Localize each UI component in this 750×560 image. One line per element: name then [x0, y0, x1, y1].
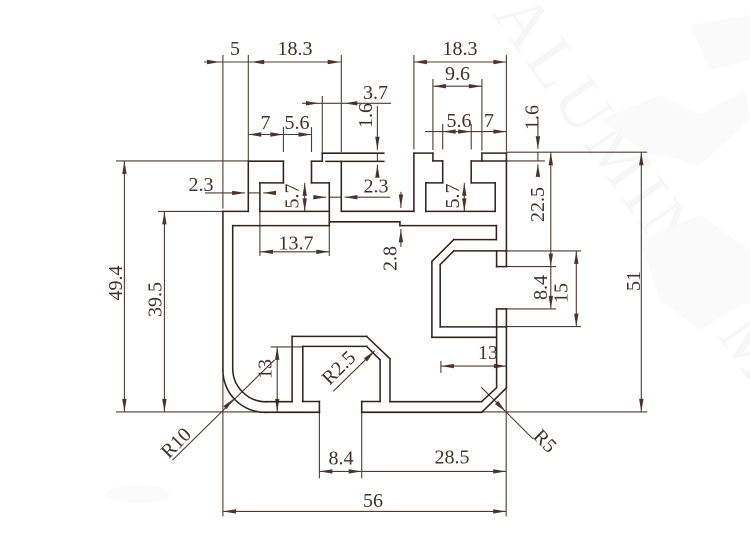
svg-text:28.5: 28.5: [435, 446, 470, 468]
bottom face: [265, 411, 319, 413]
bottom slot cavity chamfer R2.5: [367, 346, 381, 360]
surface left of right neck: [433, 160, 443, 162]
svg-text:5: 5: [230, 38, 240, 60]
leader R10: [173, 360, 275, 460]
left T-slot neck left wall: [282, 161, 284, 183]
left T-slot cavity floor: [260, 210, 329, 212]
dimension line 13.7 y=251.8: [260, 251, 329, 253]
channel mouth top inner: [454, 250, 507, 252]
interior right wall: [496, 327, 498, 388]
interior ceiling step: [399, 222, 401, 226]
ext line x=413.9 top: [413, 55, 415, 150]
dimension line 39.5 x=164.4: [163, 211, 165, 412]
ext line ledge left (y=211.4 to the left): [158, 210, 223, 212]
svg-text:2.8: 2.8: [379, 246, 401, 271]
arrows dim 13.7 (inside): [260, 250, 273, 254]
ext line top surface left (y=160.9 to the left): [116, 160, 248, 162]
dimension line 7 / 5.6 left y=134.5: [248, 134, 311, 136]
right T-slot cavity left wall: [425, 183, 427, 212]
interior floor left segment: [266, 401, 292, 403]
corner radius R10 outer arc: [223, 370, 265, 412]
svg-text:5.7: 5.7: [442, 184, 464, 209]
right flange top: [482, 152, 507, 154]
right flange step: [481, 153, 483, 161]
dimension line 22.5 x=550.8: [550, 152, 552, 266]
arrows dim 5.7 left (inside, vertical): [303, 183, 307, 196]
arrows dim 2.8 (outside, vertical): [399, 195, 403, 208]
svg-text:18.3: 18.3: [278, 38, 313, 60]
dimension line 15 right x=576.3: [575, 251, 577, 327]
flange top: [322, 152, 384, 154]
arrows dim 3.7 (outside): [306, 101, 319, 105]
left ledge: [223, 210, 248, 212]
bottom face long line y=411.9 (ext left and right): [116, 411, 319, 413]
right T-slot neck right wall: [470, 161, 472, 183]
ext line x=506.4 top: [505, 55, 507, 152]
svg-text:9.6: 9.6: [445, 63, 470, 85]
arrows dim 51 (inside, vertical): [639, 152, 643, 165]
dimension line 49.4 x=124.4: [123, 161, 125, 412]
ceiling to channel wall: [495, 226, 497, 240]
interior left wall: [232, 226, 234, 369]
middle channel right wall: [413, 153, 415, 211]
leader R5: [481, 387, 533, 439]
middle channel floor: [341, 210, 414, 212]
right outer wall upper: [505, 153, 507, 267]
ext lines 13.7 (x=259.9, x=329.3 below floor): [259, 211, 261, 256]
svg-text:56: 56: [363, 490, 383, 512]
ext lines 15 right (y=250.9, y=326.6 to the right): [506, 250, 581, 252]
leader R2.5: [333, 351, 374, 392]
channel back wall outer: [431, 261, 433, 337]
bottom slot ledge left: [303, 401, 320, 403]
arrows dim 5.7 right (inside, vertical): [462, 183, 466, 196]
arrows dim 18.3 right (inside): [414, 60, 427, 64]
channel upper diagonal outer: [432, 240, 454, 262]
arrows dim 39.5 (inside, vertical): [162, 211, 166, 224]
svg-text:1.6: 1.6: [355, 103, 377, 128]
exterior chamfer R5 corner: [482, 388, 506, 412]
ext lines 7/5.6 left necks: [282, 127, 284, 152]
svg-text:18.3: 18.3: [443, 38, 478, 60]
bottom slot boss right wall: [389, 359, 391, 402]
watermark text ALUMINIUM: [480, 0, 750, 398]
ext lines 5.6/7 right necks: [442, 124, 444, 150]
svg-text:7: 7: [261, 112, 271, 134]
arrows dim 15 right (inside, vertical): [574, 251, 578, 264]
arrowhead R5 leader: [495, 401, 506, 412]
svg-text:1.6: 1.6: [521, 105, 543, 130]
svg-text:8.4: 8.4: [329, 447, 354, 469]
ext line 13 bottom-left (y=346.9): [271, 346, 303, 348]
ext line 3.7 left (x=322.3): [321, 96, 323, 153]
interior ceiling right segment: [400, 225, 497, 227]
surface right of right neck: [471, 160, 506, 162]
dimension line 5.7 left x=304.7: [304, 183, 306, 212]
arrows dim 5 (outside): [207, 60, 220, 64]
watermark logo swoosh top right: [106, 15, 750, 503]
right T-slot cavity right wall: [494, 183, 496, 212]
right T-block step down: [432, 153, 434, 161]
arrows dim 13 right (inside): [441, 364, 454, 368]
svg-text:R2.5: R2.5: [318, 347, 361, 390]
bottom slot ledge right: [362, 401, 380, 403]
ext line step wall (x=248.3 above top surface): [247, 55, 249, 161]
left T-slot neck right wall: [311, 161, 313, 183]
left T-slot cavity left wall: [259, 183, 261, 212]
svg-text:R5: R5: [529, 425, 561, 457]
top surface left of left T-slot: [248, 160, 283, 162]
right T-slot cavity floor: [426, 210, 495, 212]
arrows dim 56 (inside): [223, 509, 236, 513]
ext lines 56 (x=222.9, x=506.2 below): [222, 370, 224, 516]
left T-slot overhang underside right: [312, 182, 330, 184]
left outer wall: [222, 211, 224, 370]
bottom slot cavity right wall: [379, 360, 381, 402]
dimension line 5.7 right x=464.3: [463, 183, 465, 212]
channel lower wall outer bottom: [432, 336, 497, 338]
interior corner arc bottom-left: [233, 368, 267, 402]
svg-text:22.5: 22.5: [527, 187, 549, 222]
ext lines 1.6 right (y=152.2 and y=160.9 to the right): [506, 151, 647, 153]
ext lines bottom 8.4 (x=319.4, x=361.7): [318, 412, 320, 478]
right T-block raised top: [414, 152, 433, 154]
dimension 1.6 right vertical tails x=537.9: [537, 117, 539, 149]
ext line x=341.3 top: [340, 55, 342, 152]
dimension line 9.6 y=86.2: [433, 85, 482, 87]
arrows dim 1.6 right (outside, vertical): [536, 136, 540, 149]
dimension line 51 x=641.3: [640, 152, 642, 412]
interior floor right segment: [390, 401, 482, 403]
svg-text:5.6: 5.6: [447, 110, 472, 132]
dimension line 8.4 bottom / 28.5 y=471.4: [319, 470, 506, 472]
middle channel left wall: [340, 161, 342, 211]
ext lines 9.6 (x=432.9, x=481.9): [432, 79, 434, 150]
bottom opening wall right: [361, 402, 363, 413]
arrows dim 49.4 (inside, vertical): [122, 161, 126, 174]
svg-text:13: 13: [254, 359, 276, 379]
arrows dim 8.4 bottom (inside): [319, 469, 332, 473]
svg-text:51: 51: [623, 271, 645, 291]
arrows dim 5.6 right (inside): [443, 129, 456, 133]
svg-text:2.3: 2.3: [189, 174, 214, 196]
ext lines 22.5 / 8.4 right (y=266.6, y=308.9 to the right): [506, 266, 556, 268]
arrows dim 2.3 left (outside): [232, 191, 245, 195]
bottom slot cavity left wall: [302, 346, 304, 401]
flange bottom: [326, 160, 384, 162]
channel lower tooth: [497, 308, 507, 310]
dimension line 13 bottom-left x=277.2: [276, 347, 278, 412]
channel floor inner: [440, 326, 506, 328]
arrowhead R10 leader on arc: [223, 399, 234, 410]
dimension line 3.7 y=103.3 with outside tails: [302, 102, 322, 104]
svg-text:5.6: 5.6: [285, 112, 310, 134]
svg-text:R10: R10: [157, 424, 196, 463]
arrowhead R2.5 leader: [364, 351, 375, 362]
channel lower diagonal inner: [440, 251, 454, 265]
svg-text:13: 13: [478, 342, 498, 364]
arrows dim 13 bottom-left (inside, vertical): [275, 347, 279, 360]
svg-text:39.5: 39.5: [144, 282, 166, 317]
svg-text:5.7: 5.7: [281, 184, 303, 209]
channel upper tooth: [496, 251, 498, 267]
arrows dim 1.6 left (outside, vertical): [375, 137, 379, 150]
right T-slot overhang underside left: [426, 182, 443, 184]
right T-slot overhang underside right: [471, 182, 495, 184]
left T-slot overhang underside left: [260, 182, 284, 184]
dimension line 5 and 18.3 row y=62: [204, 61, 341, 63]
dimension line 8.4 right x=550.8: [550, 267, 552, 309]
bottom slot boss chamfer outer: [367, 336, 390, 358]
dimension 2.8 vertical tails x=400.9: [400, 192, 402, 208]
svg-text:15: 15: [551, 283, 573, 303]
arrows dim 22.5 (inside, vertical): [549, 152, 553, 165]
svg-text:49.4: 49.4: [105, 266, 127, 301]
dimension line 5.6 / 7 right y=131.6: [425, 131, 506, 133]
step up to flange: [321, 153, 323, 161]
svg-text:13.7: 13.7: [279, 232, 314, 254]
channel back wall inner: [439, 265, 441, 327]
bottom slot boss top: [292, 335, 367, 337]
bottom slot boss left wall: [291, 336, 293, 401]
arrows dim 7 left (inside): [248, 132, 261, 136]
interior ceiling left segment: [233, 225, 330, 227]
dimension line 2.3 left y=192.9: [205, 192, 245, 194]
interior mid ceiling: [329, 221, 400, 223]
svg-text:3.7: 3.7: [363, 82, 388, 104]
dimension line 56 y=511.4: [223, 510, 506, 512]
left step wall: [247, 161, 249, 211]
bottom slot cavity ceiling: [303, 345, 367, 347]
channel upper wall top: [454, 239, 497, 241]
bottom opening wall left: [318, 402, 320, 413]
svg-text:7: 7: [484, 110, 494, 132]
arrows dim 7 right (inside): [493, 129, 506, 133]
ext line left wall top (5 dim, x=222.9): [222, 55, 224, 209]
arrows dim 2.3 middle (outside): [313, 195, 326, 199]
arrows dim 9.6 (inside): [433, 84, 446, 88]
dimension line 2.3 middle y=197.2: [316, 196, 326, 198]
right T-slot neck left wall: [442, 161, 444, 183]
svg-text:2.3: 2.3: [364, 175, 389, 197]
top surface right of left neck: [312, 160, 323, 162]
svg-text:8.4: 8.4: [530, 275, 552, 300]
right outer wall lower: [505, 309, 507, 388]
dimension line 13 right y=366.1: [441, 365, 507, 367]
ext line 13 right channel (x=440.9): [440, 361, 442, 373]
dimension 1.6 left vertical tails x=377.4: [376, 106, 378, 150]
interior chamfer bottom right: [482, 388, 497, 402]
left T-slot cavity right wall: [328, 183, 330, 226]
